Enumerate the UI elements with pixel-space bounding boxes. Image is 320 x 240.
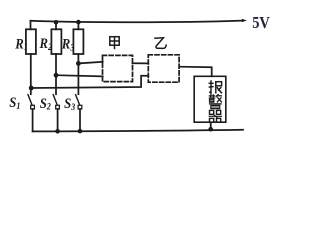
node dot A (R1/S1 tap) <box>29 86 34 91</box>
label 甲 (gate name, drawn glyph) <box>110 37 119 50</box>
label 警 (alarm text char 2, drawn glyph) <box>209 94 222 109</box>
wire bottom ground rail <box>33 130 243 132</box>
wire R3 bottom lead to switch S3 <box>77 54 79 94</box>
node dot alarm-bottom rail <box>208 127 213 132</box>
node dot S3-bottom rail <box>78 129 83 134</box>
wire gate 甲 output to gate 乙 upper input <box>133 62 149 64</box>
+5V supply arrowhead <box>242 19 247 23</box>
alarm box 报警器 outline <box>194 76 226 122</box>
switch S1 blade <box>28 95 32 105</box>
node dot rail-R3 <box>76 20 81 25</box>
label 器 (alarm text char 3, drawn glyph) <box>209 110 222 122</box>
switch S2 terminal <box>56 105 60 109</box>
wire riser R2 to rail <box>55 22 57 29</box>
wire S3 terminal to bottom rail <box>79 109 81 131</box>
wire gate 乙 output to alarm 报警器 <box>179 67 211 77</box>
wire riser R3 to rail <box>77 22 79 29</box>
wire alarm bottom lead to bottom rail <box>210 122 212 129</box>
wire R1 bottom lead to switch S1 <box>30 54 32 94</box>
node dot C (R3/S3 tap) <box>76 61 81 66</box>
node dot B (R2/S2 tap) <box>54 73 59 78</box>
switch S1 terminal <box>31 105 35 109</box>
wire R2 bottom lead to switch S2 <box>55 54 57 94</box>
resistor R3 <box>73 29 83 54</box>
wire node A tap to gate 乙 lower input <box>31 76 149 88</box>
switch S3 terminal <box>78 105 82 109</box>
node dot rail-R2 <box>54 20 59 25</box>
wire node C tap to gate 甲 upper input <box>78 62 102 64</box>
svg-text:R2: R2 <box>39 36 53 52</box>
node dot S2-bottom rail <box>55 129 60 134</box>
label 乙 (gate name, drawn glyph) <box>154 38 166 49</box>
label 报 (alarm text char 1, drawn glyph) <box>209 80 222 93</box>
switch S2 blade <box>53 95 57 105</box>
svg-text:S3: S3 <box>64 96 76 112</box>
wire node B tap to gate 甲 lower input <box>56 75 103 76</box>
resistor R2 <box>51 29 61 54</box>
logic gate box 甲 (dashed) <box>103 55 133 81</box>
wire top +5V supply rail <box>31 21 243 23</box>
wire S1 terminal to bottom rail <box>32 109 34 131</box>
svg-text:S2: S2 <box>40 96 52 112</box>
logic gate box 乙 (dashed) <box>148 55 179 82</box>
switch S3 blade <box>76 95 80 105</box>
wire riser R1 to rail <box>30 21 32 30</box>
resistor R1 <box>26 29 36 54</box>
wire S2 terminal to bottom rail <box>57 109 59 131</box>
svg-text:5V: 5V <box>252 14 270 32</box>
svg-text:S1: S1 <box>9 95 20 111</box>
